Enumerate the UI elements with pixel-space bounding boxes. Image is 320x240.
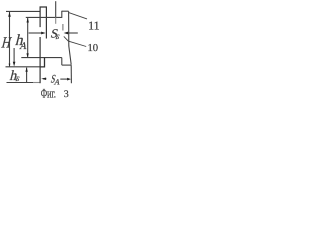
svg-text:11: 11 — [88, 19, 100, 33]
svg-text:3: 3 — [64, 89, 69, 99]
svg-text:Фиг.: Фиг. — [41, 86, 56, 99]
svg-text:10: 10 — [88, 43, 99, 54]
